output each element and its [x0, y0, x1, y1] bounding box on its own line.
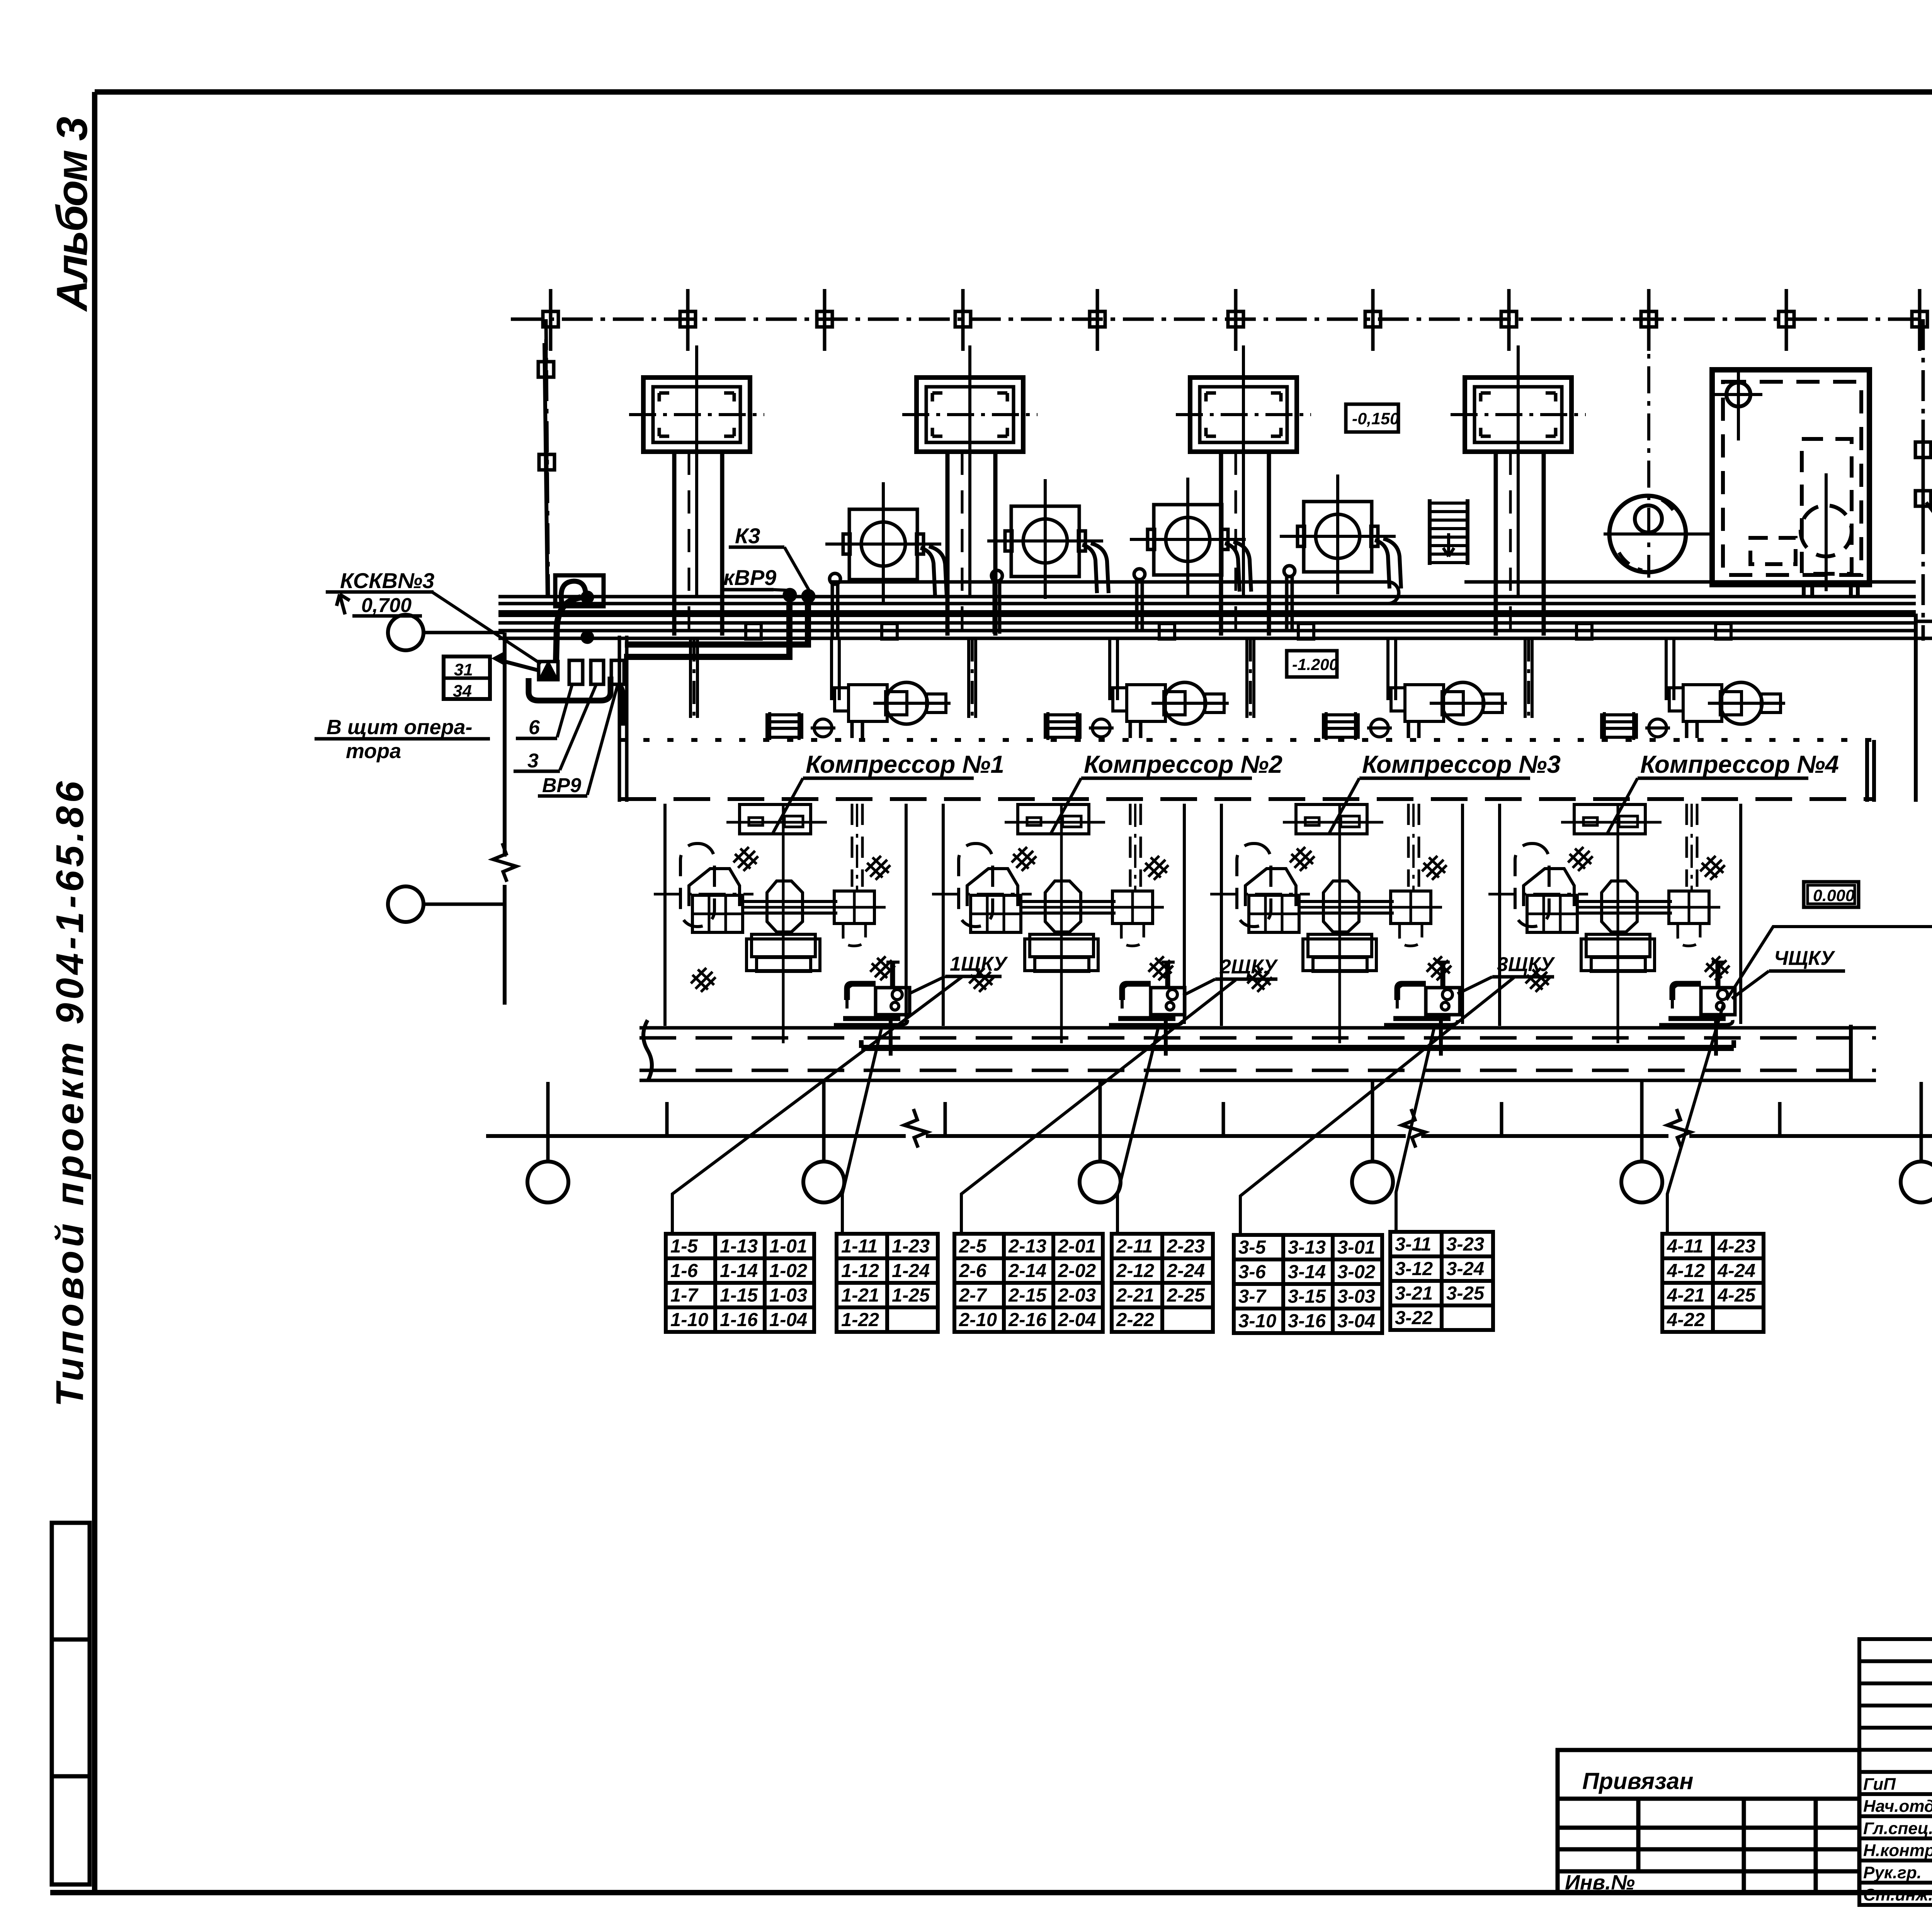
svg-text:кВР9: кВР9 [723, 565, 776, 590]
column marker 6 [1228, 289, 1243, 351]
motor 4 support pin [1284, 566, 1295, 629]
compressor unit 1 outline [663, 804, 667, 1026]
svg-text:2-14: 2-14 [1008, 1260, 1046, 1281]
svg-text:0.000: 0.000 [1813, 886, 1855, 905]
svg-text:3: 3 [527, 750, 539, 772]
svg-text:2-22: 2-22 [1116, 1310, 1154, 1330]
svg-text:1ЩКУ: 1ЩКУ [950, 953, 1008, 975]
bay 1 pump feed pipe [830, 638, 833, 700]
svg-text:Н.контр.: Н.контр. [1863, 1841, 1932, 1860]
compressor band right edge [1865, 740, 1869, 802]
wall break 1 [904, 1109, 927, 1148]
compressor band left edge [618, 636, 621, 802]
svg-text:1-02: 1-02 [769, 1260, 807, 1281]
compressor unit 4 instrument rack [1574, 804, 1645, 834]
foundation band lines [639, 1026, 1876, 1030]
bay 2 pump feed pipe [1108, 638, 1111, 700]
roof vent 4 [1451, 378, 1586, 452]
level label 0.000 [1804, 882, 1859, 907]
column marker 11 [1912, 289, 1927, 351]
svg-text:6: 6 [529, 716, 540, 739]
cable table A [666, 1234, 814, 1332]
svg-text:2-16: 2-16 [1008, 1310, 1047, 1330]
compressor unit 2 gearbox [1112, 891, 1153, 923]
svg-text:1-01: 1-01 [769, 1236, 807, 1257]
svg-text:Рук.гр.: Рук.гр. [1863, 1863, 1922, 1882]
svg-text:3-22: 3-22 [1395, 1308, 1433, 1328]
grid column 1 with circle [546, 1082, 550, 1162]
bay 3 riser pipe [1245, 638, 1248, 718]
jack 3 stem [1439, 1020, 1443, 1056]
column marker 4 [955, 289, 971, 351]
electrical room inner dashed outline [1723, 382, 1861, 575]
left wall upper segment [544, 343, 548, 597]
vent 4 vertical centerline [1517, 345, 1520, 597]
band hanger squares [746, 624, 761, 639]
vent 4 stack [1494, 452, 1498, 636]
cable lower loop [529, 677, 611, 701]
room pipe stubs [1802, 585, 1806, 597]
compressor unit 1 motor grid [692, 895, 743, 932]
svg-text:3-13: 3-13 [1288, 1237, 1326, 1258]
svg-text:2-15: 2-15 [1008, 1285, 1047, 1306]
bay 3 drop pipe dashed [1407, 723, 1410, 741]
right vertical axis dash-dot [1922, 319, 1925, 641]
cable table B [837, 1234, 938, 1332]
cabinet dashed box [1802, 439, 1852, 574]
compressor unit 4 gearbox [1669, 891, 1709, 923]
left wall break [493, 843, 516, 882]
leader KSKV to connector [432, 592, 541, 664]
compressor unit 1 gearbox [834, 891, 874, 923]
svg-text:3-02: 3-02 [1337, 1262, 1375, 1282]
compressor unit 2 shaft [1019, 900, 1116, 903]
title block signature grid [1859, 1639, 1932, 1905]
compressor unit 3 flywheel [1323, 881, 1359, 932]
jack 1 stem [889, 1020, 893, 1056]
svg-text:Нач.отд: Нач.отд [1863, 1797, 1932, 1816]
svg-text:КСКВ№3: КСКВ№3 [340, 568, 434, 593]
room dashed circle [1801, 505, 1852, 556]
compressor unit 3 crankcase [1245, 869, 1296, 906]
left wall stub to panel [505, 662, 539, 670]
svg-text:2-6: 2-6 [959, 1260, 987, 1281]
bay 3 pump feed pipe [1386, 638, 1389, 700]
leader from jack4 to right table [1726, 927, 1932, 1000]
svg-text:1-12: 1-12 [841, 1260, 879, 1281]
motor 2 support pin [992, 570, 1002, 634]
svg-text:3-11: 3-11 [1395, 1234, 1431, 1255]
bay 1 cooler block [767, 715, 802, 737]
compressor unit 3 base plates [1308, 934, 1372, 957]
svg-text:ГиП: ГиП [1863, 1775, 1896, 1794]
foundation thick bus [861, 1045, 1734, 1051]
bay 3 cooler block [1323, 715, 1358, 737]
svg-text:4-25: 4-25 [1717, 1285, 1756, 1306]
jack 4 stem [1714, 1020, 1718, 1056]
vent 3 vertical centerline [1242, 345, 1245, 597]
compressor unit 3 gearbox [1391, 891, 1431, 923]
svg-text:2-02: 2-02 [1058, 1260, 1096, 1281]
compressor unit 4 hatches [1568, 847, 1593, 871]
cable table C [954, 1234, 1103, 1332]
compressor unit 3 hatches [1290, 847, 1315, 871]
connector block 2 [591, 660, 604, 684]
grid circle left lower [388, 886, 423, 922]
wall break 3 [1667, 1109, 1690, 1148]
vent 1 stack [672, 452, 677, 636]
compressor unit 2 motor grid [971, 895, 1021, 932]
bay 3 pump unit [1405, 685, 1444, 721]
bottom wall line [486, 1134, 906, 1138]
vent 3 stack [1219, 452, 1223, 636]
leader to table F [1396, 1027, 1434, 1232]
leader to table C [961, 980, 1236, 1234]
compressor unit 4 axis [1488, 893, 1588, 896]
upper duct right segment [1464, 580, 1916, 584]
compressor unit 4 crankcase [1524, 869, 1574, 906]
top column axis line [511, 318, 1922, 321]
cable table E [1234, 1235, 1382, 1333]
compressor unit 4 shaft [1576, 900, 1672, 903]
svg-text:2-01: 2-01 [1058, 1236, 1096, 1257]
jack unit 2 (ShchKU) [1109, 961, 1185, 1025]
svg-text:Альбом 3: Альбом 3 [48, 117, 96, 312]
stairs [1428, 499, 1432, 565]
svg-text:3-7: 3-7 [1238, 1286, 1267, 1307]
svg-text:Компрессор №1: Компрессор №1 [806, 750, 1004, 778]
cable to K3 dot [625, 603, 808, 645]
bay 3 small valve circle [1371, 719, 1388, 737]
grid column 3 with circle [1099, 1082, 1102, 1162]
svg-text:2-04: 2-04 [1058, 1310, 1096, 1330]
right axis slanted tick [1926, 502, 1932, 553]
leader to table D [1117, 1027, 1158, 1234]
svg-text:3-25: 3-25 [1446, 1283, 1485, 1304]
svg-text:1-7: 1-7 [670, 1285, 699, 1306]
grid column 5 with circle [1640, 1082, 1644, 1162]
svg-text:3-14: 3-14 [1288, 1262, 1326, 1282]
compressor unit 2 receiver vessel [959, 844, 993, 927]
K3 cable dot [801, 589, 815, 603]
level label -0,150 [1346, 404, 1398, 432]
bay 4 small valve circle [1649, 719, 1667, 737]
compressor unit 2 dashed bell [1121, 925, 1144, 946]
bay 1 riser pipe [689, 638, 692, 718]
box 31/34 [444, 656, 490, 699]
compressor unit 1 shaft [741, 900, 837, 903]
compressor unit 4 motor grid [1527, 895, 1577, 932]
grid column 4 with circle [1371, 1082, 1374, 1162]
vent 2 stack [946, 452, 950, 636]
thick cable drop to band edge [617, 684, 623, 726]
svg-text:2-7: 2-7 [959, 1285, 988, 1306]
svg-text:1-03: 1-03 [769, 1285, 807, 1306]
bay 2 riser pipe [967, 638, 970, 718]
roof vent 3 [1176, 378, 1311, 452]
column marker 5 [1090, 289, 1105, 351]
jack 2 stem [1164, 1020, 1168, 1056]
label 0.700 with arrow [337, 594, 350, 614]
svg-text:4-21: 4-21 [1667, 1285, 1705, 1306]
wall break 2 [1402, 1109, 1425, 1148]
bay 4 pump feed pipe [1665, 638, 1668, 700]
compressor unit 4 receiver vessel [1515, 844, 1549, 927]
bay 2 pump unit [1127, 685, 1165, 721]
jack unit 3 (ShchKU) [1384, 961, 1460, 1025]
compressor unit 1 instrument rack [740, 804, 811, 834]
svg-text:1-16: 1-16 [720, 1310, 758, 1330]
svg-text:3-6: 3-6 [1238, 1262, 1266, 1282]
compressor band top dotted line [619, 738, 1874, 742]
left margin inventory strip [52, 1523, 90, 1884]
leader to table B [842, 1027, 882, 1234]
svg-text:Типовой проект 904-1-65.86: Типовой проект 904-1-65.86 [48, 778, 92, 1407]
compressor unit 1 base plates [752, 934, 815, 957]
svg-text:3-24: 3-24 [1446, 1259, 1484, 1279]
compressor unit 1 receiver vessel [680, 844, 714, 927]
right walkway extension [1916, 620, 1932, 623]
svg-text:3-10: 3-10 [1238, 1311, 1276, 1332]
svg-text:1-25: 1-25 [892, 1285, 930, 1306]
column marker 2 [680, 289, 696, 351]
compressor unit 3 motor grid [1249, 895, 1299, 932]
small dashed box [1750, 538, 1796, 564]
svg-text:В щит опера-: В щит опера- [327, 716, 473, 739]
electrical room outline [1712, 370, 1869, 585]
svg-text:1-23: 1-23 [892, 1236, 930, 1257]
compressor unit 4 outline [1498, 804, 1501, 1026]
operator cable triangle connector [539, 662, 558, 680]
svg-text:2-23: 2-23 [1167, 1236, 1205, 1257]
compressor unit 3 instrument rack [1296, 804, 1367, 834]
svg-text:1-21: 1-21 [841, 1285, 879, 1306]
roof vent 1 [629, 378, 764, 452]
svg-text:1-14: 1-14 [720, 1260, 758, 1281]
svg-text:Компрессор №4: Компрессор №4 [1640, 750, 1839, 778]
compressor unit 2 right pipe dashed [1129, 804, 1132, 887]
bay 2 drop pipe dashed [1129, 723, 1132, 741]
svg-text:31: 31 [454, 660, 473, 679]
column marker 8 [1501, 289, 1517, 351]
foundation band left brace [643, 1020, 652, 1081]
svg-text:тора: тора [346, 740, 401, 763]
compressor unit 4 dashed bell [1678, 925, 1700, 946]
compressor unit 3 axis [1210, 893, 1310, 896]
svg-text:2-24: 2-24 [1167, 1260, 1205, 1281]
bay 1 pump unit [849, 685, 887, 721]
column marker 3 [817, 289, 832, 351]
compressor unit 1 flywheel [767, 881, 803, 932]
svg-text:Гл.спец.: Гл.спец. [1863, 1819, 1932, 1838]
grid circle left upper [388, 615, 423, 650]
connector block 1 [569, 660, 583, 684]
svg-text:3-23: 3-23 [1446, 1234, 1484, 1255]
level label -1.200 [1287, 651, 1337, 677]
cable table D [1112, 1234, 1213, 1332]
svg-text:2ЩКУ: 2ЩКУ [1219, 956, 1278, 978]
compressor unit 3 outline [1220, 804, 1223, 1026]
column marker 7 [1365, 289, 1381, 351]
svg-text:3-16: 3-16 [1288, 1311, 1326, 1332]
svg-text:К3: К3 [735, 524, 760, 548]
compressor unit 3 shaft [1298, 900, 1394, 903]
svg-text:3-12: 3-12 [1395, 1259, 1433, 1279]
svg-text:ВР9: ВР9 [542, 774, 581, 797]
compressor unit 1 right pipe dashed [851, 804, 854, 887]
kVR9 cable dot [783, 588, 797, 602]
compressor unit 1 crankcase [689, 869, 740, 906]
column marker 9 [1641, 289, 1656, 351]
svg-text:4-12: 4-12 [1667, 1260, 1705, 1281]
column marker 1 [543, 289, 558, 351]
motor unit 4 [1280, 474, 1401, 594]
fan unit double circle [1609, 496, 1686, 572]
svg-text:2-10: 2-10 [959, 1310, 997, 1330]
connector block 3 [611, 660, 624, 684]
jack unit 4 (ShchKU) [1659, 961, 1735, 1025]
junction box on band [555, 575, 604, 606]
svg-text:3-04: 3-04 [1337, 1311, 1375, 1332]
svg-text:2-03: 2-03 [1058, 1285, 1096, 1306]
compressor unit 2 axis [932, 893, 1032, 896]
compressor unit 2 outline [942, 804, 945, 1026]
privyazan box [1558, 1750, 1859, 1893]
compressor band bottom dashed line [619, 797, 1874, 801]
svg-text:1-5: 1-5 [670, 1236, 698, 1257]
svg-text:3-21: 3-21 [1395, 1283, 1433, 1304]
svg-text:4-11: 4-11 [1667, 1236, 1703, 1257]
compressor unit 4 base plates [1586, 934, 1650, 957]
cable dot B [581, 631, 594, 644]
svg-text:Привязан: Привязан [1582, 1768, 1693, 1794]
motor 3 support pin [1134, 569, 1145, 632]
vent 1 vertical centerline [695, 345, 698, 597]
room small circle with cross [1726, 383, 1750, 406]
left wall line [503, 633, 507, 857]
leader to table G [1667, 1005, 1723, 1234]
compressor unit 3 dashed bell [1400, 925, 1422, 946]
compressor unit 1 hatches [733, 847, 758, 871]
bay 2 small valve circle [1092, 719, 1110, 737]
foundation band right end [1849, 1025, 1853, 1082]
bay 4 pump unit [1683, 685, 1722, 721]
svg-text:4-23: 4-23 [1717, 1236, 1755, 1257]
inner right wall [1914, 614, 1918, 802]
compressor unit 1 axis [654, 893, 753, 896]
bay 4 riser pipe [1524, 638, 1527, 718]
compressor unit 2 crankcase [967, 869, 1018, 906]
svg-text:3-01: 3-01 [1337, 1237, 1375, 1258]
grid column 2 with circle [822, 1082, 826, 1162]
roof vent 2 [902, 378, 1037, 452]
svg-text:Инв.№: Инв.№ [1565, 1871, 1635, 1894]
svg-text:2-12: 2-12 [1116, 1260, 1154, 1281]
cable to kVR9 dot [624, 603, 789, 657]
svg-text:1-22: 1-22 [841, 1310, 879, 1330]
motor unit 2 [987, 479, 1109, 599]
svg-text:2-21: 2-21 [1116, 1285, 1154, 1306]
cable table F [1390, 1232, 1493, 1330]
left vertical axis dash-dot [546, 319, 548, 597]
svg-text:2-13: 2-13 [1008, 1236, 1046, 1257]
cable table G [1662, 1234, 1764, 1332]
compressor unit 1 dashed bell [843, 925, 866, 946]
bay 1 small valve circle [814, 719, 832, 737]
compressor unit 2 base plates [1030, 934, 1094, 957]
compressor unit 4 flywheel [1602, 881, 1637, 932]
svg-text:1-6: 1-6 [670, 1260, 698, 1281]
svg-text:1-10: 1-10 [670, 1310, 708, 1330]
thick cable loop from box [561, 581, 586, 605]
cable drop to connectors [556, 597, 581, 662]
svg-text:2-5: 2-5 [959, 1236, 987, 1257]
svg-text:ЧЩКУ: ЧЩКУ [1774, 947, 1835, 969]
compressor unit 3 receiver vessel [1237, 844, 1271, 927]
svg-text:2-11: 2-11 [1116, 1236, 1153, 1257]
bay 2 cooler block [1045, 715, 1080, 737]
svg-text:1-24: 1-24 [892, 1260, 930, 1281]
svg-text:3-03: 3-03 [1337, 1286, 1375, 1307]
svg-text:1-13: 1-13 [720, 1236, 758, 1257]
compressor unit 3 right pipe dashed [1407, 804, 1410, 887]
leader to table E [1240, 978, 1514, 1235]
cable dot A [581, 591, 594, 604]
upper duct left segment with cap [832, 582, 1399, 604]
svg-text:-0,150: -0,150 [1352, 410, 1399, 428]
wall stubs [665, 1102, 669, 1136]
vent 2 vertical centerline [968, 345, 971, 597]
svg-text:4-24: 4-24 [1717, 1260, 1755, 1281]
svg-text:Компрессор №3: Компрессор №3 [1362, 750, 1561, 778]
bay 4 cooler block [1602, 715, 1636, 737]
svg-text:-1.200: -1.200 [1292, 655, 1338, 673]
compressor unit 2 instrument rack [1018, 804, 1089, 834]
svg-text:1-04: 1-04 [769, 1310, 807, 1330]
compressor unit 2 hatches [1012, 847, 1036, 871]
svg-text:1-11: 1-11 [841, 1236, 878, 1257]
compressor unit 4 right pipe dashed [1685, 804, 1688, 887]
svg-text:1-15: 1-15 [720, 1285, 758, 1306]
svg-text:Ст.инж.: Ст.инж. [1863, 1885, 1932, 1904]
motor 1 support pin [830, 573, 840, 637]
svg-text:3ЩКУ: 3ЩКУ [1497, 953, 1555, 976]
svg-text:Компрессор №2: Компрессор №2 [1084, 750, 1282, 778]
motor unit 1 [825, 482, 947, 602]
svg-text:3-5: 3-5 [1238, 1237, 1266, 1258]
main horizontal pipe band [498, 595, 1916, 599]
grid column 6 with circle [1920, 1082, 1923, 1162]
svg-text:2-25: 2-25 [1167, 1285, 1205, 1306]
svg-text:3-15: 3-15 [1288, 1286, 1326, 1307]
bay 1 drop pipe dashed [850, 723, 854, 741]
compressor unit 2 flywheel [1045, 881, 1081, 932]
svg-text:4-22: 4-22 [1667, 1310, 1705, 1330]
motor unit 3 [1130, 478, 1251, 597]
jack unit 1 (ShchKU) [834, 961, 910, 1025]
column marker 10 [1779, 289, 1794, 351]
svg-text:34: 34 [453, 682, 472, 701]
bay 4 drop pipe dashed [1685, 723, 1689, 741]
leader to table A [672, 977, 962, 1234]
